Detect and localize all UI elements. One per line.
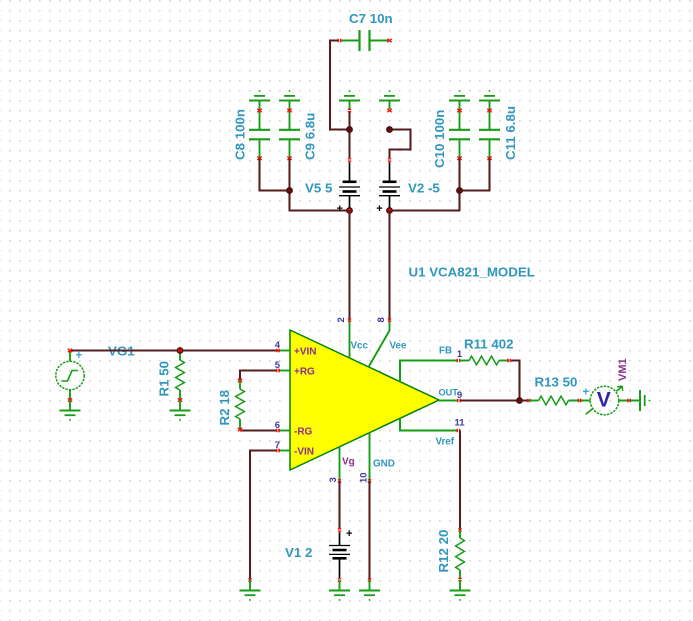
svg-text:V2 -5: V2 -5 — [408, 181, 440, 196]
svg-text:1: 1 — [457, 349, 463, 360]
svg-text:+: + — [346, 528, 352, 540]
svg-text:-VIN: -VIN — [294, 447, 314, 458]
svg-text:Vee: Vee — [390, 341, 407, 352]
svg-text:+: + — [336, 203, 342, 215]
svg-text:R11 402: R11 402 — [464, 337, 514, 352]
svg-text:7: 7 — [275, 440, 280, 451]
svg-text:C10 100n: C10 100n — [432, 110, 447, 168]
svg-text:R12 20: R12 20 — [436, 530, 451, 573]
svg-text:VM1: VM1 — [617, 358, 629, 381]
svg-text:9: 9 — [457, 390, 462, 401]
svg-text:+: + — [582, 387, 589, 399]
svg-text:+: + — [75, 350, 82, 362]
svg-text:8: 8 — [376, 317, 387, 322]
svg-text:U1 VCA821_MODEL: U1 VCA821_MODEL — [409, 265, 535, 280]
svg-text:V1 2: V1 2 — [285, 545, 312, 560]
svg-text:3: 3 — [328, 477, 339, 482]
svg-text:V: V — [597, 389, 611, 412]
svg-text:C9 6.8u: C9 6.8u — [303, 113, 318, 160]
svg-text:C8 100n: C8 100n — [233, 109, 248, 160]
svg-text:OUT: OUT — [439, 388, 459, 398]
svg-text:R13 50: R13 50 — [535, 375, 578, 390]
svg-text:+: + — [376, 203, 382, 215]
svg-text:+VIN: +VIN — [294, 347, 317, 358]
svg-text:2: 2 — [336, 317, 347, 322]
svg-text:C7 10n: C7 10n — [349, 11, 393, 26]
svg-text:V5 5: V5 5 — [305, 181, 333, 196]
svg-text:Vg: Vg — [342, 457, 355, 468]
svg-text:Vref: Vref — [436, 437, 455, 448]
svg-text:-RG: -RG — [294, 427, 313, 438]
svg-text:5: 5 — [275, 360, 281, 371]
svg-text:4: 4 — [275, 340, 281, 351]
svg-text:R1 50: R1 50 — [157, 361, 172, 396]
svg-text:FB: FB — [439, 346, 452, 357]
svg-text:6: 6 — [275, 420, 280, 431]
svg-text:10: 10 — [359, 472, 370, 483]
svg-text:R2 18: R2 18 — [217, 390, 232, 425]
svg-text:+RG: +RG — [294, 367, 315, 378]
svg-text:GND: GND — [373, 459, 395, 470]
svg-text:Vcc: Vcc — [351, 341, 369, 352]
svg-text:C11 6.8u: C11 6.8u — [503, 106, 518, 160]
svg-text:11: 11 — [455, 418, 466, 429]
